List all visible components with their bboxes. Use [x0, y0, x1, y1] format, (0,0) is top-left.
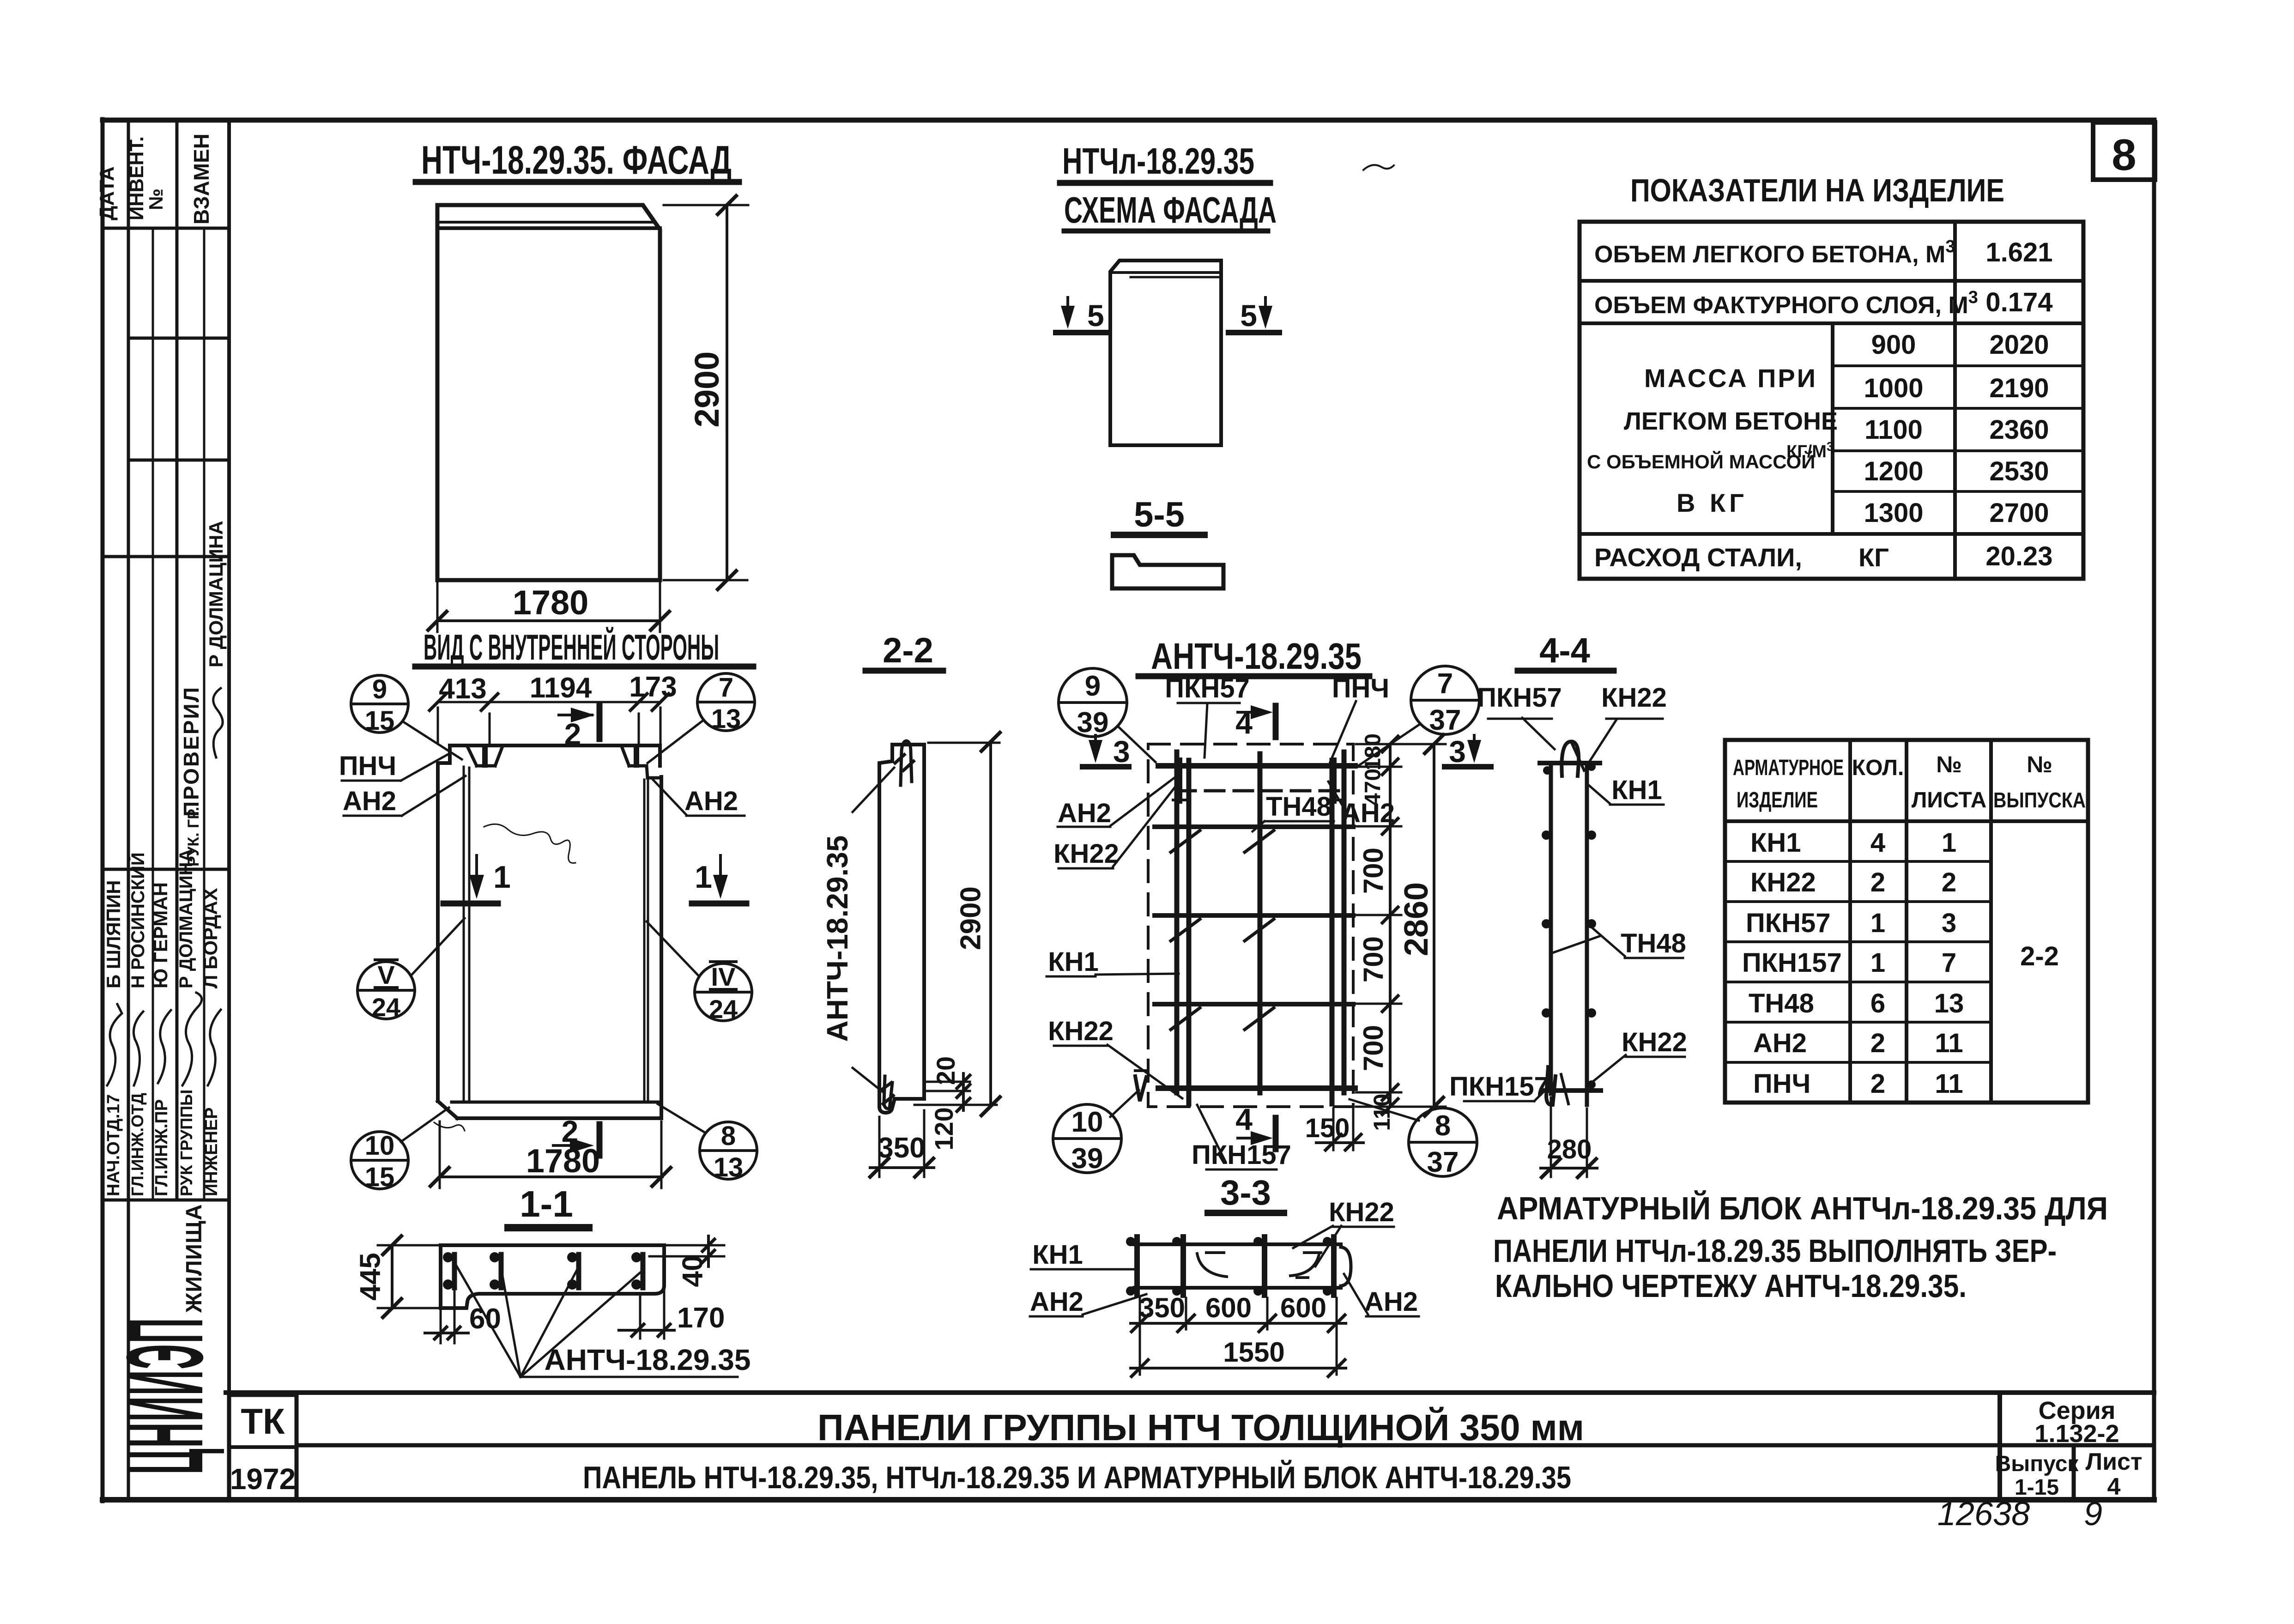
label ТН48	[1266, 792, 1332, 822]
svg-text:1.621: 1.621	[1985, 237, 2052, 267]
svg-text:2530: 2530	[1989, 456, 2049, 486]
svg-text:КН22: КН22	[1053, 839, 1119, 869]
svg-text:1100: 1100	[1864, 415, 1923, 445]
svg-text:7: 7	[1437, 668, 1453, 700]
svg-text:МАССА ПРИ: МАССА ПРИ	[1644, 364, 1817, 393]
svg-text:12638: 12638	[1937, 1496, 2030, 1533]
3-3 dims 350 600 600	[1131, 1298, 1346, 1375]
svg-text:КОЛ.: КОЛ.	[1852, 756, 1904, 780]
label АН2 (right)	[1341, 798, 1395, 828]
svg-text:7: 7	[1942, 948, 1956, 978]
5-5 profile	[1112, 555, 1223, 588]
svg-text:НАЧ.ОТД.17: НАЧ.ОТД.17	[104, 1094, 123, 1196]
svg-text:173: 173	[629, 671, 677, 703]
svg-text:8: 8	[2112, 130, 2136, 180]
label АН2 left	[343, 786, 396, 816]
stamp names/roles/signatures	[103, 849, 221, 1196]
svg-text:ТН48: ТН48	[1749, 988, 1814, 1018]
svg-text:АНТЧ-18.29.35: АНТЧ-18.29.35	[545, 1343, 751, 1376]
svg-text:20.23: 20.23	[1985, 541, 2052, 571]
2-2 dim 2900	[928, 733, 1000, 1115]
label ПКН157 (bottom)	[1192, 1140, 1291, 1170]
svg-text:13: 13	[711, 704, 741, 734]
svg-text:2: 2	[1942, 867, 1956, 897]
svg-text:1972: 1972	[230, 1462, 296, 1496]
svg-text:Л БОРДАХ: Л БОРДАХ	[200, 888, 221, 988]
svg-text:НТЧл-18.29.35: НТЧл-18.29.35	[1062, 140, 1254, 182]
2-2 panel outline	[879, 745, 924, 1113]
svg-text:ТК: ТК	[241, 1401, 285, 1442]
svg-text:9: 9	[2084, 1496, 2102, 1533]
section marker 1 left	[443, 855, 498, 903]
svg-text:АН2: АН2	[343, 786, 396, 816]
TK box	[229, 1395, 297, 1500]
label ПКН57	[1165, 673, 1250, 703]
svg-text:КН1: КН1	[1048, 947, 1099, 977]
svg-text:КН22: КН22	[1048, 1016, 1114, 1046]
svg-text:3: 3	[1942, 908, 1956, 938]
circle 8/13	[658, 1104, 757, 1179]
svg-text:3: 3	[1113, 734, 1130, 769]
4-4 top hook	[1562, 741, 1579, 776]
svg-text:Выпуск: Выпуск	[1995, 1452, 2079, 1476]
svg-text:АН2: АН2	[684, 786, 738, 816]
circle 10/39	[1053, 1090, 1139, 1173]
svg-text:Лист: Лист	[2086, 1448, 2143, 1475]
svg-text:ПНЧ: ПНЧ	[1332, 673, 1389, 703]
svg-text:ВЗАМЕН: ВЗАМЕН	[189, 133, 213, 224]
svg-text:1: 1	[695, 860, 712, 895]
svg-text:5-5: 5-5	[1134, 495, 1185, 534]
section 1-1 outline	[441, 1245, 664, 1308]
svg-text:КН1: КН1	[1611, 775, 1662, 805]
label 1-1	[520, 1183, 573, 1224]
title block	[226, 1393, 2154, 1500]
section marker 4 top	[1235, 706, 1253, 740]
svg-text:4: 4	[2107, 1473, 2121, 1500]
stamp ЖИЛИЩА / ЦНИИЭП logo	[105, 1204, 226, 1474]
page number box 8	[2093, 122, 2155, 180]
svg-text:РАСХОД СТАЛИ,: РАСХОД СТАЛИ,	[1594, 543, 1802, 572]
svg-text:ИНВЕНТ.: ИНВЕНТ.	[126, 136, 147, 220]
svg-text:180: 180	[1361, 733, 1386, 770]
dim 170	[619, 1289, 674, 1339]
inner panel outline	[438, 745, 661, 1118]
ПКН157 hook bottom left	[1135, 1071, 1146, 1101]
svg-text:ОБЪЕМ ФАКТУРНОГО СЛОЯ, М3: ОБЪЕМ ФАКТУРНОГО СЛОЯ, М3	[1594, 288, 1978, 319]
4-4 rebar dots	[1542, 763, 1596, 1089]
label АН2 (left)	[1058, 798, 1111, 828]
svg-text:37: 37	[1427, 1146, 1459, 1178]
svg-text:АРМАТУРНЫЙ БЛОК АНТЧл-18.29.35: АРМАТУРНЫЙ БЛОК АНТЧл-18.29.35 ДЛЯ	[1497, 1190, 2108, 1226]
svg-text:3-3: 3-3	[1220, 1173, 1271, 1212]
svg-text:37: 37	[1429, 704, 1461, 736]
svg-text:АНТЧ-18.29.35: АНТЧ-18.29.35	[821, 836, 854, 1042]
small panel	[1110, 261, 1221, 445]
svg-text:2-2: 2-2	[2020, 941, 2059, 971]
svg-text:24: 24	[709, 994, 738, 1024]
svg-text:РУК ГРУППЫ: РУК ГРУППЫ	[177, 1090, 196, 1196]
svg-text:1-1: 1-1	[520, 1183, 573, 1224]
svg-text:13: 13	[1934, 988, 1964, 1018]
rebar cage: horizontals ТН48	[1155, 766, 1355, 1088]
stamp column grid	[103, 120, 229, 1500]
svg-text:1: 1	[1870, 908, 1885, 938]
svg-text:5: 5	[1240, 298, 1257, 333]
svg-text:В КГ: В КГ	[1677, 488, 1748, 517]
dashed panel outline (plan)	[1148, 744, 1353, 1107]
svg-text:4-4: 4-4	[1539, 631, 1590, 670]
svg-text:470: 470	[1361, 769, 1386, 806]
svg-text:ЛИСТА: ЛИСТА	[1912, 788, 1987, 812]
svg-text:413: 413	[439, 673, 486, 705]
dim 150	[1316, 1109, 1363, 1150]
svg-text:ГЛ.ИНЖ.ОТД: ГЛ.ИНЖ.ОТД	[128, 1093, 147, 1196]
label КН1 (4-4)	[1611, 775, 1662, 805]
facade dim 2900	[664, 196, 748, 589]
label АН2 (3-3 right)	[1364, 1287, 1418, 1317]
svg-text:700: 700	[1358, 1025, 1389, 1071]
svg-text:2900: 2900	[955, 886, 987, 950]
svg-text:ЛЕГКОМ БЕТОНЕ: ЛЕГКОМ БЕТОНЕ	[1624, 407, 1838, 435]
svg-text:ПНЧ: ПНЧ	[1753, 1069, 1810, 1099]
svg-text:11: 11	[1935, 1028, 1963, 1058]
svg-text:№: №	[2027, 751, 2052, 777]
svg-text:120: 120	[929, 1107, 958, 1150]
circle V/24	[357, 918, 465, 1019]
label КН1	[1048, 947, 1099, 977]
4-4 bottom hook	[1546, 1067, 1556, 1105]
svg-text:20: 20	[931, 1056, 960, 1085]
circle 7/37	[1357, 666, 1479, 767]
svg-text:1: 1	[1942, 828, 1956, 858]
svg-text:АН2: АН2	[1364, 1287, 1418, 1317]
svg-text:2-2: 2-2	[883, 631, 933, 670]
callout rays АНТЧ-18.29.35	[456, 1266, 738, 1377]
dim 2860	[1425, 735, 1443, 1116]
svg-text:ГЛ.ИНЖ.ПР: ГЛ.ИНЖ.ПР	[152, 1099, 171, 1196]
section marker 3 left	[1083, 735, 1129, 767]
section marker 1 right	[692, 855, 746, 903]
svg-text:2020: 2020	[1989, 330, 2049, 360]
rebar cage: verticals КН1	[1177, 752, 1344, 1104]
svg-text:15: 15	[365, 1162, 395, 1192]
inner view title	[424, 627, 719, 667]
svg-text:КН22: КН22	[1601, 683, 1667, 713]
label ПНЧ	[339, 751, 396, 781]
svg-text:1: 1	[1870, 948, 1885, 978]
svg-text:1.132-2: 1.132-2	[2034, 1420, 2119, 1448]
circle IV/24	[647, 921, 752, 1021]
svg-text:ПАНЕЛИ ГРУППЫ НТЧ ТОЛЩИНОЙ 350: ПАНЕЛИ ГРУППЫ НТЧ ТОЛЩИНОЙ 350 мм	[817, 1406, 1584, 1448]
svg-text:1000: 1000	[1864, 373, 1923, 403]
label АН2 right	[684, 786, 738, 816]
3-3 inner hooks	[1197, 1253, 1321, 1278]
circle 7/13	[648, 673, 755, 763]
label КН22 (upper left)	[1053, 839, 1119, 869]
svg-text:ОБЪЕМ ЛЕГКОГО БЕТОНА, М3: ОБЪЕМ ЛЕГКОГО БЕТОНА, М3	[1594, 237, 1955, 268]
svg-text:39: 39	[1071, 1143, 1103, 1175]
svg-text:150: 150	[1305, 1113, 1350, 1143]
svg-text:ПКН57: ПКН57	[1477, 683, 1562, 713]
facade title НТЧ-18.29.35. ФАСАД	[421, 138, 732, 182]
svg-text:15: 15	[365, 706, 395, 736]
rebar hooks in 1-1	[454, 1254, 643, 1288]
inner top dim 413 1194 173	[430, 694, 669, 743]
svg-text:КН1: КН1	[1750, 828, 1801, 858]
svg-text:КН22: КН22	[1622, 1027, 1687, 1057]
svg-text:ПОКАЗАТЕЛИ НА ИЗДЕЛИЕ: ПОКАЗАТЕЛИ НА ИЗДЕЛИЕ	[1630, 172, 2004, 208]
svg-text:0.174: 0.174	[1985, 287, 2052, 317]
svg-text:СХЕМА ФАСАДА: СХЕМА ФАСАДА	[1064, 189, 1277, 230]
svg-text:ЦНИИЭП: ЦНИИЭП	[105, 1317, 226, 1474]
title АНТЧ-18.29.35	[1151, 636, 1362, 677]
section marker 2 (top)	[559, 706, 599, 739]
svg-text:КН22: КН22	[1750, 867, 1816, 897]
svg-text:350: 350	[1139, 1292, 1185, 1323]
svg-text:ПАНЕЛЬ НТЧ-18.29.35, НТЧл-18.2: ПАНЕЛЬ НТЧ-18.29.35, НТЧл-18.29.35 И АРМ…	[583, 1460, 1571, 1495]
circle 10/15	[351, 1108, 449, 1189]
stamp ПРОВЕРИЛ block	[179, 521, 227, 867]
svg-text:С ОБЪЕМНОЙ МАССОЙ: С ОБЪЕМНОЙ МАССОЙ	[1587, 450, 1815, 473]
svg-text:4: 4	[1235, 1102, 1253, 1136]
svg-text:8: 8	[721, 1121, 736, 1151]
svg-text:2700: 2700	[1989, 498, 2049, 528]
svg-text:ПКН157: ПКН157	[1192, 1140, 1291, 1170]
svg-text:1200: 1200	[1864, 456, 1923, 486]
label КН22 (3-3)	[1329, 1197, 1394, 1227]
svg-text:1: 1	[493, 860, 511, 895]
label КН1 (3-3)	[1032, 1240, 1083, 1270]
svg-text:ТН48: ТН48	[1266, 792, 1332, 822]
dim 40	[649, 1236, 724, 1266]
inner dim 1780 bottom	[430, 1121, 671, 1188]
svg-text:8: 8	[1435, 1110, 1451, 1142]
svg-text:39: 39	[1077, 707, 1109, 739]
svg-text:ПРОВЕРИЛ: ПРОВЕРИЛ	[179, 686, 203, 817]
svg-text:ПНЧ: ПНЧ	[339, 751, 396, 781]
svg-text:2360: 2360	[1989, 415, 2049, 445]
svg-text:ВИД С ВНУТРЕННЕЙ СТОРОНЫ: ВИД С ВНУТРЕННЕЙ СТОРОНЫ	[424, 627, 719, 667]
svg-text:IV: IV	[711, 962, 736, 991]
svg-text:60: 60	[469, 1303, 501, 1335]
svg-text:7: 7	[719, 673, 733, 703]
svg-text:ДАТА: ДАТА	[96, 166, 118, 220]
svg-text:№: №	[145, 188, 167, 210]
4-4 verticals	[1540, 763, 1601, 1105]
svg-text:350: 350	[878, 1132, 925, 1164]
svg-text:170: 170	[677, 1302, 725, 1334]
svg-text:9: 9	[1085, 670, 1101, 702]
svg-text:НТЧ-18.29.35. ФАСАД: НТЧ-18.29.35. ФАСАД	[421, 138, 732, 182]
svg-text:АН2: АН2	[1753, 1028, 1807, 1058]
circle 9/39	[1059, 668, 1156, 762]
svg-text:2900: 2900	[688, 351, 726, 428]
svg-text:1550: 1550	[1223, 1337, 1284, 1368]
svg-text:2: 2	[1870, 867, 1885, 897]
svg-text:5: 5	[1087, 298, 1104, 333]
svg-text:6: 6	[1870, 988, 1885, 1018]
svg-text:КАЛЬНО ЧЕРТЕЖУ АНТЧ-18.29.35.: КАЛЬНО ЧЕРТЕЖУ АНТЧ-18.29.35.	[1495, 1268, 1967, 1304]
svg-text:40: 40	[677, 1255, 708, 1287]
stamp header rotated labels	[96, 133, 213, 224]
section marker 2 (bottom)	[562, 1114, 579, 1148]
АН2 anchor hooks top	[1173, 759, 1343, 802]
circle 9/15	[351, 675, 462, 759]
top right keyway cutout	[622, 746, 660, 778]
3-3 dim 1550	[1131, 1360, 1346, 1376]
svg-text:Р ДОЛМАЦИНА: Р ДОЛМАЦИНА	[176, 849, 196, 988]
svg-text:ПКН157: ПКН157	[1742, 948, 1842, 978]
svg-text:V: V	[377, 960, 394, 989]
drawing frame	[103, 119, 2154, 1501]
svg-text:Б ШЛЯПИН: Б ШЛЯПИН	[103, 880, 124, 988]
title НТЧл-18.29.35	[1062, 140, 1277, 230]
svg-text:2: 2	[1870, 1028, 1885, 1058]
label ТН48 (4-4)	[1621, 928, 1686, 958]
svg-text:280: 280	[1547, 1134, 1592, 1164]
svg-text:Ю ГЕРМАН: Ю ГЕРМАН	[150, 882, 171, 988]
2-2 dims 20 / 120	[914, 1073, 997, 1111]
2-2 top lifting hook	[895, 741, 914, 785]
section markers 5	[1056, 297, 1107, 333]
label КН22 (lower left)	[1048, 1016, 1114, 1046]
labels for 4-4 at right	[1477, 683, 1562, 713]
2-2 dim 350	[870, 1110, 934, 1177]
2-2 rotated label АНТЧ-18.29.35 with callout	[821, 836, 854, 1042]
svg-text:ВЫПУСКА: ВЫПУСКА	[1993, 788, 2086, 812]
3-3 vertical rebar crossings	[1137, 1237, 1334, 1295]
svg-text:1300: 1300	[1864, 498, 1923, 528]
svg-text:11: 11	[1935, 1069, 1963, 1099]
svg-text:Н РОСИНСКИЙ: Н РОСИНСКИЙ	[127, 852, 148, 988]
svg-text:КН22: КН22	[1329, 1197, 1394, 1227]
svg-text:2: 2	[1870, 1069, 1885, 1099]
facade dim 1780	[428, 583, 669, 632]
svg-text:2190: 2190	[1989, 373, 2049, 403]
section marker 4 bottom	[1235, 1102, 1253, 1136]
right dimension chain	[1356, 736, 1446, 1115]
svg-text:ПКН157: ПКН157	[1449, 1072, 1549, 1102]
label ПНЧ	[1332, 673, 1389, 703]
svg-text:110: 110	[1369, 1094, 1395, 1131]
svg-text:ПАНЕЛИ НТЧл-18.29.35 ВЫПОЛНЯТЬ: ПАНЕЛИ НТЧл-18.29.35 ВЫПОЛНЯТЬ ЗЕР-	[1493, 1233, 2057, 1269]
circle 8/37	[1350, 1099, 1477, 1176]
svg-text:АРМАТУРНОЕ: АРМАТУРНОЕ	[1733, 756, 1844, 780]
svg-text:ТН48: ТН48	[1621, 928, 1686, 958]
svg-text:700: 700	[1358, 936, 1389, 982]
svg-text:600: 600	[1280, 1292, 1326, 1323]
label 3-3	[1220, 1173, 1271, 1212]
svg-text:445: 445	[354, 1253, 386, 1300]
svg-text:АН2: АН2	[1058, 798, 1111, 828]
svg-text:Р ДОЛМАЦИНА: Р ДОЛМАЦИНА	[205, 521, 227, 667]
svg-text:ИЗДЕЛИЕ: ИЗДЕЛИЕ	[1737, 788, 1818, 812]
svg-text:13: 13	[714, 1152, 744, 1182]
svg-text:24: 24	[372, 993, 400, 1022]
svg-text:№: №	[1936, 751, 1962, 777]
svg-text:600: 600	[1205, 1292, 1252, 1323]
4-4 dim 280	[1541, 1097, 1597, 1177]
3-3 bars	[1134, 1244, 1351, 1288]
svg-text:АНТЧ-18.29.35: АНТЧ-18.29.35	[1151, 636, 1362, 677]
svg-text:АН2: АН2	[1030, 1287, 1083, 1317]
svg-text:1780: 1780	[513, 583, 589, 622]
4-4 label КН22 top	[1601, 683, 1667, 713]
svg-text:ИНЖЕНЕР: ИНЖЕНЕР	[202, 1107, 221, 1196]
svg-text:1780: 1780	[526, 1143, 600, 1180]
dim 60	[425, 1291, 468, 1343]
svg-text:2860: 2860	[1398, 882, 1435, 956]
inner panel left chamfer double lines	[464, 767, 648, 1102]
svg-text:9: 9	[372, 674, 387, 704]
2-2 bottom hook	[881, 1076, 893, 1109]
signature scribble top	[213, 688, 223, 757]
label 5-5	[1134, 495, 1185, 534]
svg-text:ПКН57: ПКН57	[1165, 673, 1250, 703]
svg-text:КГ: КГ	[1858, 543, 1889, 572]
svg-text:1194: 1194	[530, 672, 592, 704]
label КН22 (4-4 lower)	[1622, 1027, 1687, 1057]
top left keyway cutout	[467, 746, 502, 766]
svg-text:КН1: КН1	[1032, 1240, 1083, 1270]
dim 445	[378, 1236, 438, 1317]
label 4-4	[1539, 631, 1590, 670]
facade panel outline	[437, 205, 660, 580]
svg-text:10: 10	[365, 1131, 395, 1161]
section marker 3 right	[1445, 735, 1491, 767]
svg-text:700: 700	[1358, 848, 1389, 894]
svg-text:900: 900	[1871, 330, 1916, 360]
svg-text:ПКН57: ПКН57	[1746, 908, 1831, 938]
svg-text:10: 10	[1071, 1106, 1103, 1138]
label 2-2	[883, 631, 933, 670]
svg-text:ЖИЛИЩА: ЖИЛИЩА	[182, 1204, 206, 1313]
svg-text:3: 3	[1449, 734, 1466, 769]
svg-text:4: 4	[1870, 828, 1885, 858]
label АН2 (3-3 left)	[1030, 1287, 1083, 1317]
crack squiggles	[434, 824, 575, 1131]
